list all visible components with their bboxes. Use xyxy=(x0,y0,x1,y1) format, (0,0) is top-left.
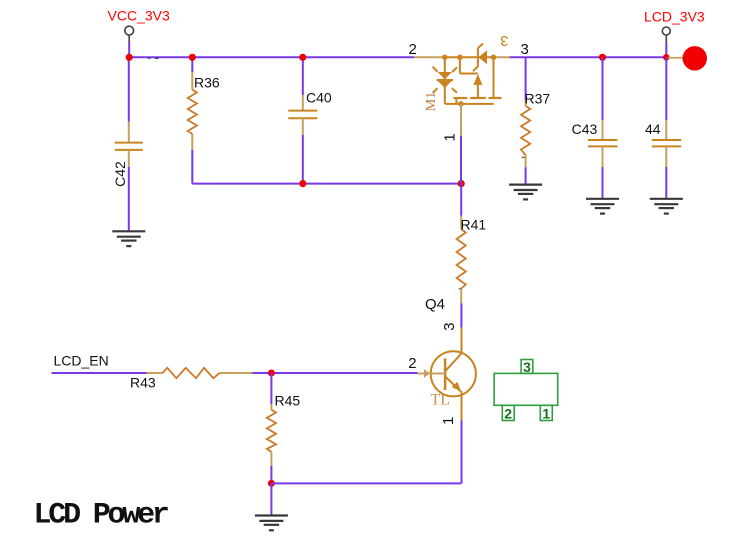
wire mosfet to mid rail xyxy=(460,136,462,184)
mosfet zener triangles xyxy=(438,50,487,88)
svg-text:R43: R43 xyxy=(130,375,156,391)
Q4 body xyxy=(431,351,476,396)
tiny artifact R37 xyxy=(522,156,525,158)
svg-text:VCC_3V3: VCC_3V3 xyxy=(108,8,170,24)
svg-text:R45: R45 xyxy=(275,393,301,409)
svg-text:2: 2 xyxy=(408,355,416,372)
junction dot bottom xyxy=(268,480,275,487)
tiny artifact R41 xyxy=(459,287,462,290)
svg-text:R37: R37 xyxy=(525,91,551,107)
resistor R36 xyxy=(191,57,193,183)
junction dot (R43/R45) xyxy=(268,370,275,377)
power terminal LCD_3V3 xyxy=(662,27,670,43)
svg-text:TL: TL xyxy=(431,392,451,409)
wire VCC stub xyxy=(128,42,130,57)
wire C42 column xyxy=(128,57,130,121)
svg-text:2: 2 xyxy=(504,406,512,422)
wire R41 to Q4 xyxy=(460,303,462,327)
port arrow to LCD_3V3 bubble xyxy=(668,57,684,59)
svg-text:Q4: Q4 xyxy=(425,296,445,313)
artifact dashes on wire xyxy=(148,57,159,59)
svg-text:R41: R41 xyxy=(461,217,487,233)
capacitor C42 xyxy=(115,122,143,167)
svg-text:3: 3 xyxy=(521,41,529,58)
mosfet internal junction dots xyxy=(442,55,496,107)
Q4 collector pin xyxy=(461,328,463,354)
svg-text:2: 2 xyxy=(409,41,417,58)
mosfet M1 pin stubs xyxy=(414,56,510,58)
capacitor C44 xyxy=(652,120,682,167)
svg-text:C42: C42 xyxy=(112,161,128,187)
svg-text:1: 1 xyxy=(542,406,550,422)
svg-text:LCD_3V3: LCD_3V3 xyxy=(644,8,705,24)
wire mid rail xyxy=(192,183,461,185)
junction dots red xyxy=(126,54,670,188)
big red node circle xyxy=(683,46,707,70)
resistor R45 xyxy=(270,404,272,410)
wire LCD stub xyxy=(665,42,667,57)
svg-text:1: 1 xyxy=(440,417,457,425)
svg-text:M1: M1 xyxy=(424,92,439,111)
wire R45 stub xyxy=(270,373,272,404)
wire R43 to Q4 base xyxy=(253,372,418,374)
resistor R43 xyxy=(147,372,253,374)
Q4 emitter arrow xyxy=(452,382,461,391)
svg-text:3: 3 xyxy=(500,32,508,49)
svg-text:C43: C43 xyxy=(572,121,598,137)
svg-text:C40: C40 xyxy=(306,90,332,106)
wire LCD_EN xyxy=(52,372,147,374)
ground (bottom) xyxy=(255,516,288,531)
wire Q4 emitter to bottom rail xyxy=(461,420,463,483)
wire mid to R41 xyxy=(460,184,462,216)
wire C42 to ground xyxy=(128,167,130,231)
ground (C43) xyxy=(586,199,619,214)
svg-text:3: 3 xyxy=(523,359,531,375)
svg-text:LCD Power: LCD Power xyxy=(34,499,168,533)
Q4 base pin with arrow xyxy=(418,373,446,375)
ground (C42) xyxy=(112,231,145,246)
wire R37 stub xyxy=(525,57,527,100)
mosfet M1 body xyxy=(433,44,502,104)
svg-text:LCD_EN: LCD_EN xyxy=(54,353,109,369)
mosfet gate pin down xyxy=(460,104,462,136)
wire to bottom ground xyxy=(270,483,272,515)
ground (C44) xyxy=(650,199,683,214)
svg-text:1: 1 xyxy=(442,133,459,141)
capacitor C43 xyxy=(588,120,618,167)
wire C43 to ground xyxy=(602,167,604,199)
resistor R37 xyxy=(525,100,527,106)
svg-text:44: 44 xyxy=(645,121,661,137)
wire C44 to ground xyxy=(665,167,667,199)
wire top rail right xyxy=(509,56,667,58)
Q4 emitter pin down xyxy=(461,391,463,420)
power terminal VCC_3V3 xyxy=(125,26,134,43)
wire bottom rail xyxy=(271,482,461,484)
wire R45 to bottom rail xyxy=(270,466,272,483)
ground (R37) xyxy=(509,185,542,200)
wire C43 stub xyxy=(602,57,604,120)
capacitor C40 xyxy=(302,57,304,95)
svg-text:3: 3 xyxy=(441,322,458,330)
wire C44 stub xyxy=(665,57,667,120)
resistor R41 xyxy=(460,216,462,303)
svg-text:R36: R36 xyxy=(194,75,220,91)
wire top rail left xyxy=(129,56,414,58)
wire R37 to ground xyxy=(525,167,527,184)
